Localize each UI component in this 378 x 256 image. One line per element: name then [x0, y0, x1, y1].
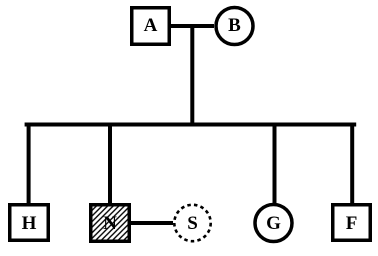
svg-text:G: G: [266, 213, 281, 234]
svg-text:A: A: [144, 15, 158, 36]
svg-text:H: H: [22, 213, 37, 234]
svg-text:F: F: [346, 213, 358, 234]
svg-text:N: N: [103, 213, 117, 234]
svg-text:S: S: [187, 213, 198, 234]
svg-text:B: B: [228, 15, 241, 36]
